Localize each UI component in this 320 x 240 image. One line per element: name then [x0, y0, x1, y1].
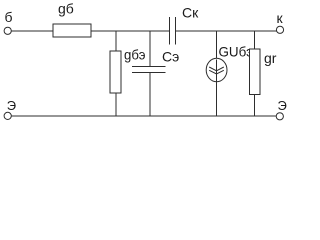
wire: stub down to current source GUбэ [215, 31, 217, 60]
svg-text:б: б [5, 9, 13, 25]
current source GUбэ [206, 58, 227, 81]
resistor gбэ [110, 51, 121, 93]
svg-text:Э: Э [7, 98, 16, 113]
capacitor Ск [169, 17, 171, 45]
svg-text:GUбэ: GUбэ [219, 44, 254, 60]
wire: current source to bottom rail [215, 83, 217, 117]
svg-text:к: к [277, 10, 284, 26]
terminal э right (emitter) [276, 113, 283, 120]
terminal к (collector) [276, 26, 283, 33]
wire: Ск to к terminal (top rail right, with junctions) [176, 30, 277, 32]
svg-text:Ск: Ск [182, 5, 199, 21]
wire: gбэ bottom to bottom rail [115, 93, 117, 116]
svg-text:gб: gб [58, 1, 74, 17]
wire: stub down to gбэ [115, 31, 117, 51]
terminal э left (emitter) [4, 112, 11, 119]
wire: stub down to gr [254, 31, 256, 49]
wire: Сэ bottom to bottom rail [149, 73, 151, 117]
resistor gr [250, 49, 261, 95]
wire: gr bottom to bottom rail [254, 95, 256, 117]
wire through current source [215, 60, 217, 83]
svg-text:gбэ: gбэ [124, 47, 146, 63]
current source arrows (double chevron down) [209, 67, 224, 71]
capacitor Сэ [132, 66, 166, 68]
svg-text:Э: Э [278, 98, 287, 113]
wire: stub down to Сэ [149, 31, 151, 67]
terminal б (base) [4, 27, 11, 34]
bottom rail (э to э) [11, 115, 276, 117]
wire: resistor gб to capacitor Ск (top rail, with junctions) [91, 30, 170, 32]
resistor gб [53, 24, 91, 37]
svg-text:Сэ: Сэ [162, 49, 179, 65]
svg-text:gr: gr [264, 50, 277, 66]
wire: б terminal to resistor gб [11, 30, 53, 32]
